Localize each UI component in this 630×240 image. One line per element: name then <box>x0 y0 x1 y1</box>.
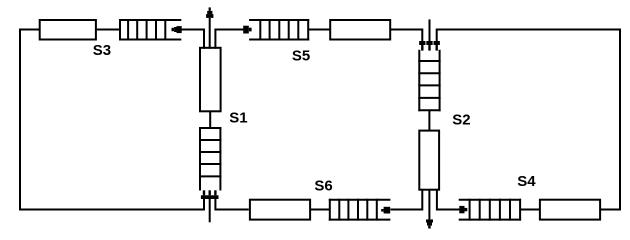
svg-text:S5: S5 <box>292 47 310 64</box>
svg-text:S3: S3 <box>93 42 111 59</box>
svg-text:S6: S6 <box>314 178 332 195</box>
svg-text:S4: S4 <box>517 173 536 190</box>
svg-text:S2: S2 <box>452 112 470 129</box>
svg-text:S1: S1 <box>229 109 247 126</box>
